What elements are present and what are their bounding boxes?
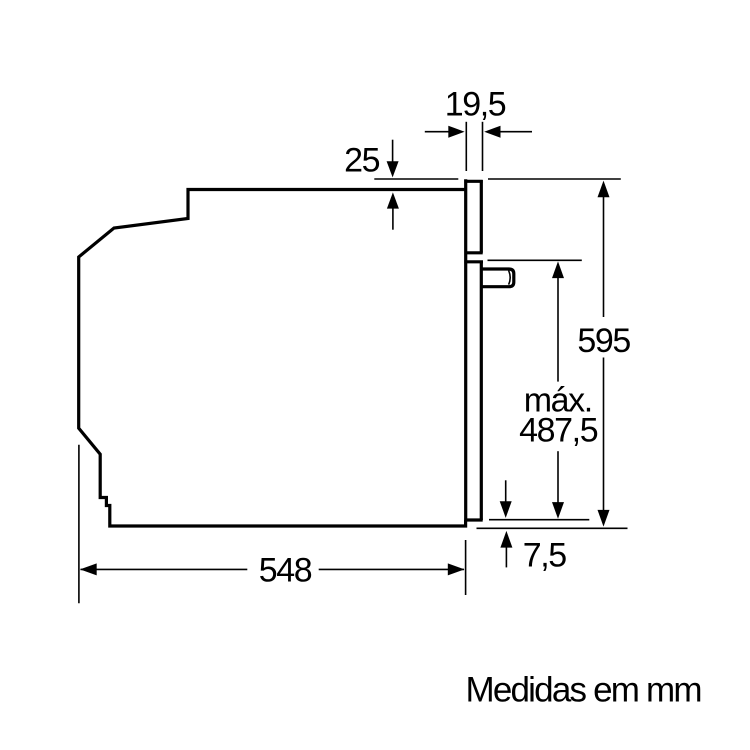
dim max 487,5 line lower segment — [557, 451, 559, 503]
dim max 487,5 up arrowhead — [552, 261, 564, 278]
dim 19,5 left extension line — [465, 122, 467, 171]
dim 595 bottom extension line / 7,5 bottom extension — [477, 527, 628, 529]
dim 7,5 door-bottom extension line — [489, 519, 589, 521]
dim 25 upper arrow shaft — [392, 140, 394, 163]
dim 595 top extension line — [488, 178, 621, 180]
door lower right edge — [480, 262, 483, 520]
dim 595 up arrowhead — [598, 181, 610, 198]
dim 595 line lower segment — [603, 358, 605, 512]
dim 7,5 down arrowhead — [500, 501, 512, 518]
oven body outline — [79, 190, 466, 527]
dim 548 right extension line — [465, 540, 467, 595]
dim 25 down arrowhead — [387, 161, 399, 177]
door upper section bottom — [465, 251, 483, 254]
dim 595 line upper segment — [603, 196, 605, 317]
dim 548 line left segment — [81, 568, 248, 570]
oven door left edge — [464, 179, 467, 520]
dim 25 lower arrow shaft — [392, 208, 394, 230]
dim 7,5 upper arrow shaft — [505, 480, 507, 503]
dim 19,5 right extension line — [482, 122, 484, 171]
door bottom edge — [464, 518, 482, 521]
dim max 487,5 top extension line — [488, 259, 582, 261]
door upper right edge — [480, 180, 483, 253]
dim max 487,5 down arrowhead — [552, 502, 564, 519]
dim 19,5 right leader line — [499, 131, 532, 133]
dim 548 left extension line — [78, 445, 80, 603]
svg-text:595: 595 — [577, 322, 630, 360]
dim 25 up arrowhead — [387, 192, 399, 208]
dim max 487,5 line upper segment — [557, 277, 559, 382]
svg-text:487,5: 487,5 — [519, 412, 598, 450]
dim 7,5 lower arrow shaft — [505, 547, 507, 567]
svg-text:19,5: 19,5 — [445, 85, 506, 123]
dim 548 line right segment — [319, 568, 464, 570]
handle end cap arc — [509, 270, 511, 284]
dim 19,5 right-pointing arrowhead — [448, 126, 464, 138]
svg-text:25: 25 — [344, 142, 380, 180]
svg-text:7,5: 7,5 — [523, 537, 567, 575]
dim 548 right-pointing arrowhead — [448, 563, 465, 575]
dim 25 extension line (door top level) — [374, 178, 458, 180]
dim 19,5 left-pointing arrowhead — [484, 126, 500, 138]
dim 595 down arrowhead — [598, 510, 610, 527]
svg-text:548: 548 — [259, 551, 312, 589]
oven door top edge — [464, 180, 482, 183]
dim 19,5 left leader line — [425, 131, 450, 133]
dim 548 left-pointing arrowhead — [80, 563, 97, 575]
svg-text:Medidas em mm: Medidas em mm — [466, 671, 701, 710]
door lower section top — [464, 260, 483, 263]
dim 7,5 up arrowhead — [500, 531, 512, 548]
handle — [482, 269, 514, 287]
